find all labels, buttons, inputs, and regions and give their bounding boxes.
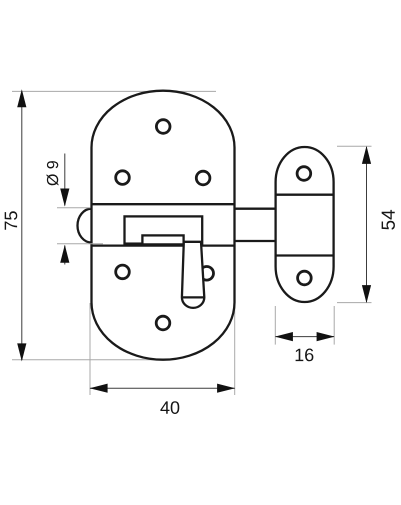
dimension line 40 <box>90 387 235 389</box>
screw hole lower left <box>116 265 130 279</box>
screw hole lower right behind knob <box>200 267 214 281</box>
dimension line diameter 9 upper segment <box>64 154 66 206</box>
screw hole upper left <box>116 171 130 185</box>
arrowhead 75 bottom <box>17 343 26 361</box>
extension line: right of dim 40 <box>234 303 236 395</box>
label 16 <box>296 349 314 362</box>
keeper outline <box>276 147 334 302</box>
extension line: right of dim 16 <box>333 306 335 345</box>
bolt housing band top edge <box>92 203 235 205</box>
extension line: top of dim 75 <box>12 90 216 92</box>
screw hole top center <box>156 120 170 134</box>
arrowhead 40 right <box>217 384 235 393</box>
main plate outline <box>92 91 235 360</box>
extension line: left of dim 40 <box>89 303 91 395</box>
label 54 <box>382 210 395 230</box>
arrowhead 16 right <box>317 332 335 341</box>
keeper screw hole top <box>297 167 311 181</box>
arrowhead 54 top <box>362 146 371 164</box>
bolt housing band bottom edge <box>92 244 235 246</box>
extension line: left of dim 16 <box>274 306 276 345</box>
label 75 <box>5 211 18 229</box>
keeper screw hole bottom <box>298 271 312 285</box>
label diameter 9 <box>47 161 59 185</box>
screw hole bottom center <box>156 316 170 330</box>
extension line: top of dim 54 <box>337 145 372 147</box>
dimension line 16 <box>276 336 335 338</box>
dimension line 54 <box>366 147 368 302</box>
arrowhead diameter 9 up <box>60 245 69 263</box>
bolt end cap left <box>77 209 91 243</box>
slide guide opening <box>125 216 203 243</box>
bolt rod top edge <box>234 208 276 210</box>
dimension line diameter 9 lower segment <box>64 246 66 265</box>
extension line: bottom of dim 75 <box>12 359 166 361</box>
knob <box>182 242 204 308</box>
keeper bridge top edge <box>276 194 334 196</box>
arrowhead 16 left <box>275 332 293 341</box>
arrowhead 54 bottom <box>362 285 371 303</box>
knob cap chord <box>182 296 204 298</box>
keeper bridge bottom edge <box>276 254 334 256</box>
bolt rod bottom edge <box>234 240 276 242</box>
diameter 9 extension tick top <box>57 207 90 209</box>
extension line: bottom of dim 54 <box>337 302 372 304</box>
arrowhead 40 left <box>90 384 108 393</box>
label 40 <box>160 401 179 414</box>
bolt stop step <box>142 235 183 244</box>
diameter 9 extension tick bottom <box>57 243 103 245</box>
screw hole upper right <box>196 171 210 185</box>
dimension line 75 <box>21 92 23 360</box>
arrowhead diameter 9 down <box>60 189 69 207</box>
arrowhead 75 top <box>17 89 26 107</box>
